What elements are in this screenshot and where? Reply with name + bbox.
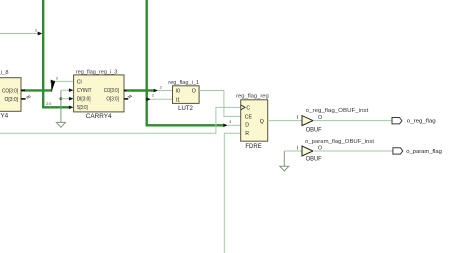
svg-text:C: C xyxy=(246,106,250,112)
svg-text:3: 3 xyxy=(35,29,37,33)
svg-text:Q: Q xyxy=(260,119,264,125)
svg-text:o_param_flag_OBUF_inst: o_param_flag_OBUF_inst xyxy=(305,139,375,145)
svg-text:OBUF: OBUF xyxy=(306,127,322,134)
svg-text:CYINIT: CYINIT xyxy=(77,88,93,94)
pin stub O (i_8) dangling xyxy=(21,98,26,100)
svg-text:DI[3:0]: DI[3:0] xyxy=(77,96,91,102)
svg-text:reg_flag_reg_i_8: reg_flag_reg_i_8 xyxy=(0,70,9,76)
arrowhead DI xyxy=(69,97,74,101)
svg-text:3: 3 xyxy=(56,76,58,80)
svg-text:O[3:0]: O[3:0] xyxy=(106,96,119,102)
wire LUT2 O to CE xyxy=(199,91,241,117)
svg-text:I: I xyxy=(297,146,298,152)
wire reset net xyxy=(224,133,240,253)
arrowhead into bus V1 xyxy=(38,32,43,36)
svg-text:OBUF: OBUF xyxy=(306,155,322,162)
pin stub CO (i_8) xyxy=(21,89,25,91)
svg-text:reg_flag_reg_i_3: reg_flag_reg_i_3 xyxy=(76,70,118,76)
arrowhead I1 tap xyxy=(146,97,151,101)
output port o_param_flag xyxy=(393,148,442,155)
output port o_reg_flag xyxy=(392,118,436,125)
svg-text:I1: I1 xyxy=(176,97,180,103)
wire OBUF2 to port xyxy=(313,150,393,152)
arrowhead CYINIT xyxy=(69,88,74,92)
arrowhead D tap xyxy=(223,124,228,128)
svg-text:O[3:0]: O[3:0] xyxy=(5,97,19,103)
wire ground to OBUF2 xyxy=(284,150,302,152)
junction dot xyxy=(60,97,63,100)
svg-text:S[3:0]: S[3:0] xyxy=(77,105,88,111)
wire ground to CYINIT xyxy=(61,89,69,91)
arrowhead I0 tap xyxy=(154,89,159,93)
bus S[3:0] vertical xyxy=(43,0,69,107)
carry4 reg_flag_reg_i_3 xyxy=(74,70,124,120)
wire to I1 xyxy=(151,98,173,100)
svg-text:O: O xyxy=(192,89,196,95)
svg-text:reg_flag_i_1: reg_flag_i_1 xyxy=(168,80,199,86)
wire bit into S bus (top left) xyxy=(0,33,38,35)
svg-text:D: D xyxy=(245,123,249,129)
wire Q to OBUF1 xyxy=(268,120,302,122)
wire OBUF1 to port xyxy=(313,120,392,122)
pin stub O (i_3) dangling xyxy=(124,98,128,100)
svg-text:reg_flag_reg: reg_flag_reg xyxy=(236,93,269,99)
svg-text:I0: I0 xyxy=(176,89,180,95)
wire to I0 xyxy=(158,90,172,92)
svg-text:2:0: 2:0 xyxy=(46,102,51,106)
svg-text:o_param_flag: o_param_flag xyxy=(406,149,442,155)
obuf o_reg_flag_OBUF_inst xyxy=(297,108,369,134)
svg-text:I: I xyxy=(297,115,298,121)
arrowhead CI tap xyxy=(51,80,56,84)
arrowhead S[3:0] xyxy=(69,106,74,110)
svg-text:2: 2 xyxy=(152,94,154,98)
svg-text:3: 3 xyxy=(229,120,231,124)
wire clock net xyxy=(0,107,241,133)
pin stub CO (i_3) xyxy=(124,90,128,92)
svg-text:FDRE: FDRE xyxy=(245,143,261,150)
svg-text:CI: CI xyxy=(77,79,82,85)
wire ground to DI[3:0] xyxy=(61,98,69,100)
wire riser to CI xyxy=(52,81,56,91)
svg-text:R: R xyxy=(245,131,249,137)
bus CO[3:0] of i_3 xyxy=(127,89,154,91)
ground GND2 xyxy=(280,151,289,171)
svg-text:CARRY4: CARRY4 xyxy=(0,113,9,120)
svg-text:o_reg_flag: o_reg_flag xyxy=(407,119,436,125)
svg-text:CE: CE xyxy=(245,114,253,120)
svg-text:LUT2: LUT2 xyxy=(178,105,193,112)
fdre reg_flag_reg xyxy=(236,93,269,150)
bus CO vertical xyxy=(147,0,224,125)
svg-text:CARRY4: CARRY4 xyxy=(86,113,112,120)
obuf o_param_flag_OBUF_inst xyxy=(297,139,375,163)
lut2 reg_flag_i_1 xyxy=(168,80,199,112)
svg-text:CO[3:0]: CO[3:0] xyxy=(2,88,18,94)
svg-text:3: 3 xyxy=(160,85,162,89)
wire CO(i_8) to CI net xyxy=(25,89,52,91)
carry4 reg_flag_reg_i_8 (cut off at left) xyxy=(0,70,21,120)
svg-text:CO[3:0]: CO[3:0] xyxy=(104,88,119,94)
ground GND1 xyxy=(56,90,65,127)
svg-text:o_reg_flag_OBUF_inst: o_reg_flag_OBUF_inst xyxy=(306,108,369,114)
wire to CI pin xyxy=(55,80,73,82)
wire to D pin xyxy=(228,124,241,126)
